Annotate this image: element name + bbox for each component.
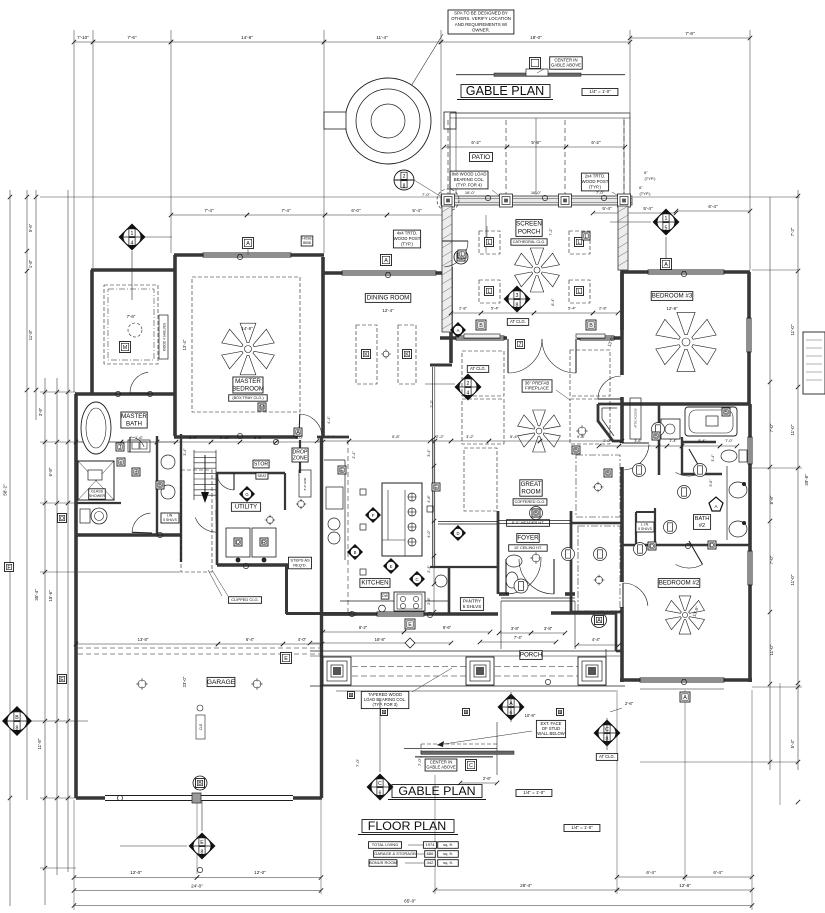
svg-text:5'-4": 5'-4" bbox=[643, 206, 653, 211]
svg-text:B: B bbox=[589, 323, 593, 329]
svg-text:MASTER: MASTER bbox=[121, 413, 147, 420]
svg-text:L: L bbox=[578, 240, 581, 246]
garage dim row bbox=[76, 643, 218, 645]
porch small sq markers bbox=[348, 692, 355, 700]
svg-text:6'-4": 6'-4" bbox=[708, 204, 718, 209]
svg-text:L: L bbox=[578, 289, 581, 295]
french doors great room north bbox=[508, 339, 542, 373]
svg-text:5 SHLVS: 5 SHLVS bbox=[463, 604, 482, 609]
garage bottom diamond E/8 bbox=[189, 833, 216, 860]
svg-text:15'-6": 15'-6" bbox=[48, 590, 53, 602]
svg-text:D: D bbox=[456, 531, 459, 536]
svg-text:CENTER IN: CENTER IN bbox=[554, 57, 577, 62]
svg-text:GABLE ABOVE: GABLE ABOVE bbox=[551, 63, 581, 68]
svg-text:5'-4": 5'-4" bbox=[790, 739, 795, 748]
svg-text:PORCH: PORCH bbox=[520, 652, 542, 659]
svg-text:24'-0": 24'-0" bbox=[191, 884, 203, 889]
left wing markers bbox=[58, 514, 67, 523]
svg-text:7'-0": 7'-0" bbox=[725, 439, 733, 443]
kitchen sink at south bbox=[379, 605, 386, 612]
svg-text:23'-0": 23'-0" bbox=[182, 676, 187, 687]
svg-text:6'-2": 6'-2" bbox=[471, 140, 481, 145]
great room dashed coffer 2x2 bbox=[462, 351, 504, 396]
boxed marker great room bbox=[450, 322, 466, 338]
wall: screen porch left screen band bbox=[442, 206, 452, 332]
svg-text:E: E bbox=[408, 622, 412, 628]
bath3 tub bbox=[685, 407, 737, 436]
utility light bbox=[265, 515, 275, 525]
wall: bath/wc divider bbox=[76, 502, 121, 504]
svg-text:a: a bbox=[465, 710, 468, 716]
entry double doors swinging in bbox=[506, 559, 541, 594]
svg-text:AT CLG.: AT CLG. bbox=[599, 754, 615, 759]
wall: bedroom2 west lower bbox=[620, 607, 624, 682]
svg-text:B: B bbox=[724, 410, 728, 416]
room label: PORCH bbox=[520, 651, 542, 660]
powder sink oval bbox=[506, 555, 522, 567]
wall: kitchen north stub bbox=[317, 436, 349, 439]
svg-text:6": 6" bbox=[639, 185, 643, 190]
wall: utility left bbox=[216, 473, 219, 565]
entry threshold lines bbox=[501, 597, 575, 599]
svg-text:5'-8": 5'-8" bbox=[531, 140, 541, 145]
svg-text:14'-8": 14'-8" bbox=[241, 326, 253, 331]
wall: hall south of closet bbox=[571, 611, 621, 614]
top dimension line right section bbox=[441, 41, 630, 43]
svg-text:7: 7 bbox=[519, 342, 522, 348]
svg-text:4'-4": 4'-4" bbox=[592, 637, 601, 642]
svg-text:BATH: BATH bbox=[126, 420, 142, 427]
svg-text:2'-2": 2'-2" bbox=[436, 434, 445, 439]
svg-text:sq. ft.: sq. ft. bbox=[443, 860, 453, 865]
svg-text:F: F bbox=[372, 513, 375, 518]
note: tapered wood col bbox=[361, 691, 409, 708]
wall: exterior right bedroom3 bbox=[747, 272, 751, 404]
wall: bedroom2 east bbox=[748, 404, 752, 682]
svg-text:BEDROOM #3: BEDROOM #3 bbox=[652, 293, 693, 300]
hose bibb box top bbox=[301, 236, 313, 246]
svg-text:10'-8": 10'-8" bbox=[525, 713, 536, 718]
svg-text:COFFERED CLG.: COFFERED CLG. bbox=[515, 500, 546, 504]
svg-text:A: A bbox=[296, 430, 300, 436]
spa side ledges bbox=[324, 112, 346, 129]
svg-text:CATHEDRAL CLG.: CATHEDRAL CLG. bbox=[513, 240, 546, 244]
svg-text:B: B bbox=[158, 483, 162, 489]
gable ridge bars bbox=[421, 751, 514, 754]
svg-text:7'-4": 7'-4" bbox=[204, 208, 214, 213]
center in gable above box bottom bbox=[425, 759, 457, 771]
svg-text:7'-0": 7'-0" bbox=[596, 190, 605, 195]
svg-text:12'-4": 12'-4" bbox=[382, 308, 394, 313]
svg-text:e: e bbox=[120, 460, 123, 466]
wall: master bath top bbox=[75, 392, 175, 396]
svg-text:O: O bbox=[60, 516, 64, 522]
svg-text:7'-2": 7'-2" bbox=[790, 227, 795, 236]
svg-text:16'-0": 16'-0" bbox=[465, 190, 476, 195]
svg-text:13'-4": 13'-4" bbox=[182, 339, 187, 350]
stair clipped ceiling dashed bbox=[181, 470, 212, 572]
wall: utility right partial bbox=[284, 473, 286, 510]
kitchen diamond markers bbox=[365, 507, 381, 523]
DW tag bbox=[381, 593, 389, 599]
svg-text:D: D bbox=[710, 543, 714, 549]
wall: kitchen west + garage east continuous bbox=[320, 437, 323, 798]
svg-text:7'-0": 7'-0" bbox=[769, 423, 774, 432]
svg-text:1/4" = 1'-0": 1/4" = 1'-0" bbox=[589, 89, 611, 94]
right dimension columns bbox=[769, 197, 771, 770]
wall: hall/stair west bbox=[180, 434, 182, 562]
svg-text:8: 8 bbox=[201, 849, 204, 855]
gable detail dashed outline bbox=[421, 743, 497, 745]
svg-text:2'-10": 2'-10" bbox=[220, 435, 231, 440]
8ft header ht box bbox=[507, 520, 550, 527]
svg-text:ROOM: ROOM bbox=[521, 488, 540, 495]
master bedroom fan bbox=[222, 323, 275, 375]
second dimension row bbox=[171, 214, 247, 216]
foyer light bbox=[530, 552, 542, 564]
svg-text:8: 8 bbox=[16, 725, 19, 731]
svg-text:K: K bbox=[405, 352, 409, 358]
marker A porch right bbox=[592, 613, 607, 628]
svg-text:2: 2 bbox=[467, 381, 470, 387]
svg-text:2'-8": 2'-8" bbox=[459, 306, 468, 311]
svg-text:5'-4": 5'-4" bbox=[412, 208, 422, 213]
svg-text:3'-8": 3'-8" bbox=[544, 626, 553, 631]
svg-text:GARAGE & STORAGE: GARAGE & STORAGE bbox=[374, 851, 416, 856]
bath vanity box bbox=[128, 440, 150, 452]
svg-text:11'-0": 11'-0" bbox=[769, 644, 774, 655]
svg-text:6'-8": 6'-8" bbox=[48, 467, 53, 476]
svg-text:B: B bbox=[15, 715, 19, 721]
svg-text:7'-0": 7'-0" bbox=[417, 757, 422, 766]
wall: bath3 interior bbox=[658, 405, 661, 475]
svg-text:18'-0": 18'-0" bbox=[530, 35, 542, 40]
svg-text:C: C bbox=[378, 781, 382, 787]
garage door thin lines bbox=[105, 795, 193, 797]
svg-text:A: A bbox=[246, 241, 250, 247]
svg-text:1/4" = 1'-0": 1/4" = 1'-0" bbox=[523, 790, 545, 795]
wall: master bedroom left bbox=[173, 255, 177, 436]
svg-text:16'-8": 16'-8" bbox=[375, 637, 386, 642]
wall: utility bottom / garage top right bbox=[217, 563, 288, 567]
circle marker 2/8 near spa bbox=[394, 170, 414, 190]
wall: dining top bbox=[324, 271, 447, 275]
svg-text:OTHERS. VERIFY LOCATION: OTHERS. VERIFY LOCATION bbox=[451, 16, 511, 21]
glass shower bbox=[78, 461, 114, 500]
svg-text:5 SHLVS: 5 SHLVS bbox=[163, 518, 177, 522]
room label: MASTER BATH bbox=[121, 412, 147, 428]
svg-text:ATTIC ACCESS: ATTIC ACCESS bbox=[634, 408, 638, 427]
wall: wc bottom / garage top-left bbox=[76, 533, 180, 537]
wall: closet left bbox=[90, 270, 94, 393]
svg-text:4: 4 bbox=[131, 240, 134, 246]
porch top rail bbox=[310, 650, 620, 652]
svg-text:a: a bbox=[383, 710, 386, 716]
note box: 36 prefab fireplace bbox=[522, 380, 552, 392]
wall: screen porch right screen band bbox=[618, 206, 628, 270]
kitchen ceiling dashed line bbox=[347, 440, 349, 613]
garage door center post bbox=[192, 793, 201, 803]
svg-text:12'-0": 12'-0" bbox=[254, 870, 266, 875]
porch centerline dashed bbox=[352, 666, 466, 668]
gable plan ridge bbox=[494, 73, 581, 76]
svg-text:7'-4": 7'-4" bbox=[281, 208, 291, 213]
svg-text:sq. ft.: sq. ft. bbox=[443, 842, 453, 847]
room label: SCREEN PORCH bbox=[516, 220, 542, 237]
svg-text:M: M bbox=[260, 405, 265, 411]
svg-text:GREAT: GREAT bbox=[521, 481, 542, 488]
svg-text:B: B bbox=[606, 471, 610, 477]
pantry sink + wc bbox=[435, 575, 447, 587]
svg-text:GARAGE: GARAGE bbox=[207, 679, 236, 686]
svg-text:L: L bbox=[461, 252, 464, 258]
wall: pantry north bbox=[430, 566, 498, 568]
dim right of porch bbox=[577, 644, 619, 646]
diamond 2/4 kitchen at clg bbox=[467, 366, 488, 373]
screen porch bottom dim row bbox=[451, 312, 481, 314]
svg-text:12'-8": 12'-8" bbox=[666, 306, 678, 311]
marker boxed E kitchen window bbox=[405, 619, 415, 629]
svg-text:CLIPPED CLG.: CLIPPED CLG. bbox=[231, 597, 259, 602]
svg-text:4'-8": 4'-8" bbox=[427, 495, 431, 503]
svg-text:K: K bbox=[364, 352, 368, 358]
svg-text:7'-0": 7'-0" bbox=[769, 555, 774, 564]
wall: exterior left bbox=[74, 394, 78, 798]
bedroom3 fan bbox=[656, 312, 716, 371]
screen porch dashed ceiling panels bbox=[479, 231, 500, 254]
bedroom2 door arc bbox=[623, 583, 648, 606]
svg-text:GLASS: GLASS bbox=[91, 490, 104, 494]
svg-text:5'-8": 5'-8" bbox=[392, 434, 401, 439]
door house to screen porch bbox=[444, 241, 468, 267]
clipped clg label bbox=[229, 597, 262, 604]
dining dashed ceiling panels bbox=[356, 325, 377, 384]
svg-text:7'-10": 7'-10" bbox=[77, 35, 89, 40]
svg-text:6: 6 bbox=[379, 790, 382, 796]
window sill plates bbox=[464, 334, 500, 338]
svg-text:WALL BELOW: WALL BELOW bbox=[537, 731, 564, 736]
svg-text:7'-8": 7'-8" bbox=[685, 31, 695, 36]
svg-text:5'-6": 5'-6" bbox=[28, 223, 33, 232]
gallery dashed ceiling bbox=[464, 448, 497, 511]
screen porch fan bbox=[515, 248, 560, 292]
door tag circle entry bbox=[514, 579, 528, 593]
svg-text:7'-0": 7'-0" bbox=[355, 758, 360, 767]
post centerline dashes bbox=[447, 120, 449, 195]
svg-text:D: D bbox=[650, 544, 654, 550]
svg-text:MASTER: MASTER bbox=[235, 378, 261, 385]
svg-text:8'-0" HDR: 8'-0" HDR bbox=[303, 478, 307, 491]
svg-text:13'-8": 13'-8" bbox=[138, 637, 149, 642]
svg-text:GABLE PLAN: GABLE PLAN bbox=[398, 784, 475, 798]
svg-text:6'-4": 6'-4" bbox=[551, 298, 555, 306]
svg-text:E: E bbox=[340, 468, 344, 474]
wall: bedroom3 south / bath3 north bbox=[622, 402, 750, 406]
svg-text:PORCH: PORCH bbox=[518, 228, 540, 235]
svg-text:E: E bbox=[284, 656, 288, 662]
svg-text:7'-2": 7'-2" bbox=[549, 228, 553, 236]
left edge section diamond B/8 bbox=[2, 706, 32, 736]
patio outline bbox=[449, 113, 451, 197]
kitchen bottom counter / south wall bbox=[322, 612, 499, 616]
svg-text:6'-4": 6'-4" bbox=[646, 870, 656, 875]
wall: house north wall below screen porch bbox=[440, 336, 507, 340]
bedroom3 door arc bbox=[598, 376, 621, 399]
second dimension row right of porch bbox=[593, 212, 621, 214]
bath2 toilet bbox=[721, 450, 737, 462]
wall: bedroom3 left column bbox=[620, 272, 624, 330]
svg-text:4'-0": 4'-0" bbox=[298, 637, 307, 642]
kitchen outlets bbox=[360, 489, 366, 495]
svg-text:OWNER.: OWNER. bbox=[472, 27, 490, 32]
door tags circled bbox=[633, 464, 646, 477]
patio dimension row bbox=[444, 146, 507, 148]
svg-text:J: J bbox=[119, 445, 122, 451]
porch bottom edge bbox=[310, 685, 625, 687]
section diamond 1/5 bedroom3 bbox=[653, 209, 680, 236]
svg-text:14'-8": 14'-8" bbox=[241, 35, 253, 40]
wall: dining right / gallery bbox=[449, 267, 453, 363]
note box: 8x8 wood load bearing col bbox=[450, 171, 488, 189]
wall: pantry/foyer east bbox=[497, 511, 500, 594]
svg-text:L: L bbox=[488, 289, 491, 295]
svg-text:A: A bbox=[683, 695, 687, 701]
svg-text:5'-4": 5'-4" bbox=[510, 434, 519, 439]
toilet wc bbox=[80, 509, 90, 523]
coat closet dash-dot bbox=[578, 526, 620, 611]
svg-text:3'-6": 3'-6" bbox=[634, 439, 642, 443]
left dimension column lines bbox=[9, 190, 11, 906]
svg-text:WOOD 4 SHELVES: WOOD 4 SHELVES bbox=[163, 323, 167, 351]
wall: foyer east bbox=[570, 511, 573, 614]
utility door arc bbox=[217, 475, 234, 491]
wall: closet top bbox=[571, 522, 622, 525]
bath2 vanity counter bbox=[726, 466, 728, 540]
garage storage dashed bbox=[78, 647, 320, 649]
svg-text:BEDROOM: BEDROOM bbox=[232, 385, 264, 392]
svg-text:5: 5 bbox=[665, 225, 668, 231]
svg-text:PATIO: PATIO bbox=[472, 154, 490, 161]
svg-text:12'-0": 12'-0" bbox=[130, 870, 142, 875]
svg-text:E: E bbox=[60, 677, 64, 683]
svg-text:B: B bbox=[654, 434, 658, 440]
svg-text:BATH: BATH bbox=[695, 516, 710, 522]
svg-text:GABLE ABOVE: GABLE ABOVE bbox=[426, 765, 456, 770]
svg-text:5'-4": 5'-4" bbox=[602, 206, 612, 211]
marker boxed A over dining bbox=[381, 255, 392, 266]
svg-text:C: C bbox=[415, 577, 418, 582]
svg-text:SHOWER: SHOWER bbox=[89, 494, 106, 498]
wall: bedroom2 south bbox=[620, 678, 752, 682]
kitchen island bbox=[382, 483, 422, 556]
svg-text:2x4 TRTD.: 2x4 TRTD. bbox=[585, 174, 606, 179]
washer dryer bbox=[226, 528, 250, 557]
room label: BEDROOM #3 bbox=[651, 292, 693, 301]
svg-text:3'-4": 3'-4" bbox=[189, 435, 198, 440]
note box: spa note bbox=[448, 10, 514, 34]
stairs bbox=[194, 451, 216, 453]
wall: bath2 south / bedroom2 north bbox=[622, 544, 750, 547]
svg-text:B: B bbox=[534, 511, 538, 517]
screen porch top beam band bbox=[441, 196, 632, 205]
room label: BEDROOM #2 bbox=[658, 579, 700, 588]
porch diamond A/6 bbox=[498, 694, 525, 721]
bedroom2 fan bbox=[666, 596, 705, 634]
svg-text:2'-8": 2'-8" bbox=[599, 306, 608, 311]
svg-text:10' CEILING HT.: 10' CEILING HT. bbox=[514, 546, 542, 550]
svg-text:SCREEN: SCREEN bbox=[516, 221, 542, 228]
svg-text:65'-0": 65'-0" bbox=[404, 899, 416, 904]
wall: master bedroom right bbox=[321, 257, 325, 437]
extension lines from top dims bbox=[73, 30, 75, 392]
svg-text:35'-4": 35'-4" bbox=[34, 589, 39, 601]
svg-text:1'-4": 1'-4" bbox=[669, 439, 677, 443]
svg-text:#2: #2 bbox=[699, 523, 705, 529]
svg-text:7'-6": 7'-6" bbox=[127, 35, 137, 40]
range bbox=[394, 592, 425, 611]
ridge thin extensions bbox=[456, 74, 494, 76]
svg-text:ZONE: ZONE bbox=[293, 455, 308, 461]
closet dashed ceiling light circle bbox=[128, 323, 142, 337]
bottom dimension rows bbox=[74, 877, 197, 879]
hall dim row y446 bbox=[599, 445, 619, 447]
svg-text:FIREPLACE: FIREPLACE bbox=[525, 386, 549, 391]
diamond 3/8 at clg great room bbox=[504, 286, 531, 313]
hall ceiling dash-dot bbox=[576, 455, 620, 517]
svg-text:B: B bbox=[198, 781, 202, 787]
svg-text:(TYP.): (TYP.) bbox=[639, 191, 651, 196]
porch east edge line bbox=[605, 649, 607, 685]
island sink circles bbox=[408, 493, 416, 501]
svg-text:AT CLG.: AT CLG. bbox=[470, 366, 486, 371]
svg-text:PANTRY: PANTRY bbox=[463, 598, 481, 603]
svg-text:6'-4": 6'-4" bbox=[246, 637, 255, 642]
svg-text:TOTAL LIVING: TOTAL LIVING bbox=[372, 842, 399, 847]
center-in-gable marker box bbox=[530, 58, 541, 69]
svg-text:FOYER: FOYER bbox=[517, 535, 539, 542]
svg-text:DINING ROOM: DINING ROOM bbox=[367, 295, 410, 302]
svg-text:KITCHEN: KITCHEN bbox=[361, 580, 388, 587]
svg-text:C: C bbox=[469, 763, 473, 769]
wall: porch east step bbox=[615, 613, 618, 651]
svg-text:R: R bbox=[262, 540, 266, 546]
svg-text:(TYP.): (TYP.) bbox=[589, 184, 601, 189]
master wc sink + toilet column bbox=[161, 455, 175, 469]
hall door arc to bedroom wing bbox=[624, 444, 649, 470]
mid dimension strip y441 bbox=[76, 441, 121, 443]
svg-text:8: 8 bbox=[516, 302, 519, 308]
svg-text:8: 8 bbox=[403, 183, 406, 189]
svg-text:BONUS ROOM: BONUS ROOM bbox=[369, 860, 397, 865]
svg-text:6'-4": 6'-4" bbox=[713, 870, 723, 875]
screen porch posts bbox=[442, 194, 455, 207]
svg-text:11'-8": 11'-8" bbox=[28, 329, 33, 340]
scatter boxed letter markers bbox=[116, 443, 124, 451]
svg-text:(TYP. FOR 3): (TYP. FOR 3) bbox=[372, 702, 398, 707]
pentagon marker A bath2 bbox=[709, 497, 723, 511]
svg-text:1: 1 bbox=[665, 216, 668, 222]
fridge circles bbox=[328, 518, 340, 530]
garage ceiling tag bbox=[196, 715, 205, 739]
boxed B markers at great room windows bbox=[476, 320, 486, 330]
wall: house front bbox=[320, 612, 357, 616]
svg-text:sq. ft.: sq. ft. bbox=[443, 851, 453, 856]
diamond C/6 gable bottom bbox=[367, 774, 394, 801]
wall: garage steps notch bbox=[285, 565, 288, 614]
svg-text:4'-4": 4'-4" bbox=[326, 416, 331, 424]
svg-text:7'-0": 7'-0" bbox=[422, 192, 431, 197]
wall: bath east bbox=[156, 436, 158, 535]
